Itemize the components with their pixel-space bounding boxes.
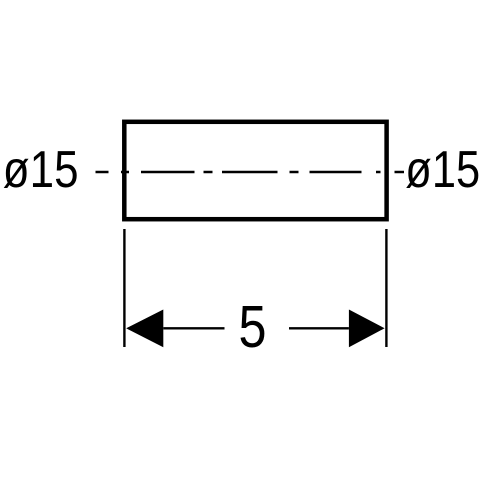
svg-text:ø15: ø15 (405, 141, 480, 199)
svg-text:5: 5 (239, 293, 267, 360)
svg-text:ø15: ø15 (3, 141, 79, 199)
